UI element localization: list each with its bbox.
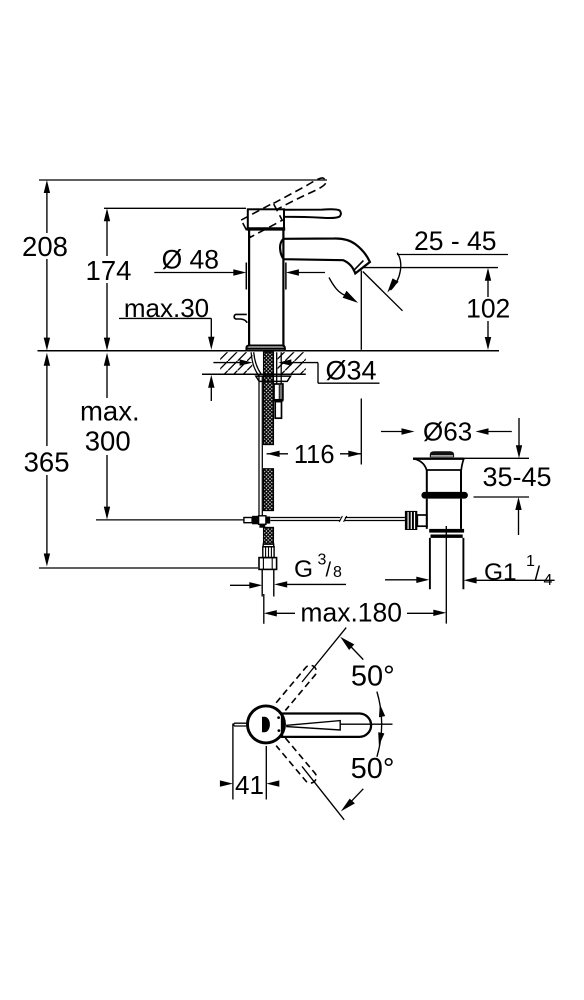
- svg-text:174: 174: [86, 255, 132, 286]
- svg-text:max.: max.: [80, 395, 140, 426]
- svg-text:102: 102: [466, 294, 510, 324]
- svg-text:365: 365: [24, 446, 70, 477]
- svg-text:25 - 45: 25 - 45: [414, 226, 497, 256]
- svg-text:G1: G1: [484, 559, 517, 586]
- svg-text:max.30: max.30: [124, 293, 209, 323]
- svg-text:max.180: max.180: [300, 597, 402, 627]
- svg-text:41: 41: [235, 770, 264, 800]
- svg-text:Ø34: Ø34: [325, 355, 376, 385]
- svg-text:35-45: 35-45: [482, 462, 551, 492]
- svg-text:/: /: [326, 560, 332, 582]
- svg-text:50°: 50°: [351, 660, 395, 692]
- svg-text:4: 4: [544, 572, 553, 589]
- svg-text:Ø 48: Ø 48: [162, 245, 219, 275]
- svg-text:8: 8: [333, 564, 342, 581]
- svg-text:Ø63: Ø63: [423, 416, 472, 446]
- svg-text:116: 116: [294, 441, 335, 469]
- svg-text:208: 208: [22, 231, 68, 262]
- svg-text:G: G: [294, 556, 313, 583]
- svg-text:/: /: [535, 564, 541, 586]
- svg-text:300: 300: [85, 426, 131, 457]
- svg-text:50°: 50°: [351, 753, 395, 785]
